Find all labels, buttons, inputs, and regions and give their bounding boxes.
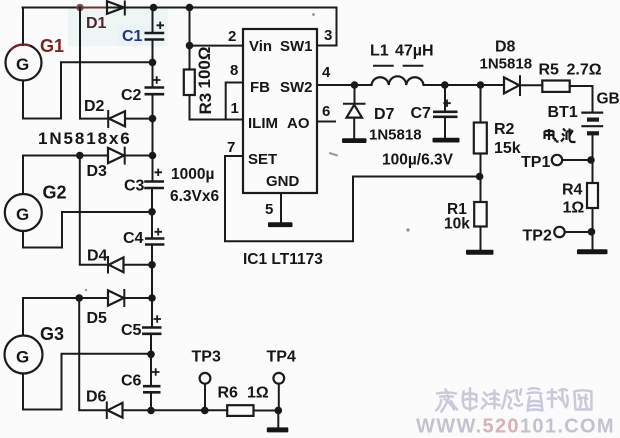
label SW1 pin name (280, 38, 313, 55)
wire pin3 SW1 stub (317, 45, 337, 47)
label 100ohm rotated (195, 47, 214, 89)
label R6 (218, 385, 239, 402)
node bus3 top (75, 294, 83, 302)
ground R1 (466, 250, 494, 255)
svg-text:WWW.520101.COM: WWW.520101.COM (416, 416, 615, 438)
diode D5 (108, 290, 124, 306)
wire R6 to TP4 node (254, 410, 279, 412)
svg-text:D5: D5 (87, 310, 108, 327)
generator G2 (5, 194, 42, 231)
svg-text:6.3Vx6: 6.3Vx6 (170, 188, 220, 205)
scan tint patch near D1/C1 (68, 8, 168, 46)
svg-text:C1: C1 (122, 28, 143, 45)
node D5 column (148, 294, 156, 302)
wire D3 cathode to column (125, 155, 151, 157)
svg-text:D8: D8 (495, 39, 516, 56)
wire top rail (23, 8, 337, 46)
label TP2 (523, 228, 552, 245)
wire G1 top lead (22, 8, 24, 46)
node C1-C2 midpoint (149, 59, 157, 67)
wire battery column to R4 (592, 160, 594, 183)
label G2 (43, 183, 67, 203)
svg-text:G: G (16, 55, 29, 74)
wire Vin rail (189, 8, 191, 70)
watermark url (416, 416, 615, 438)
pin number 8 (230, 62, 238, 79)
label Vin pin name (249, 38, 272, 55)
diode D8 (504, 76, 520, 95)
svg-text:AO: AO (287, 115, 310, 132)
wire D5 row left (23, 297, 108, 299)
label 1N5818x6 (38, 129, 132, 148)
node C1 top (150, 4, 158, 12)
label FB pin name (250, 79, 270, 96)
svg-text:G1: G1 (40, 36, 64, 56)
label D5 (87, 310, 108, 327)
label C7 (411, 105, 432, 122)
wire G3 top lead (22, 298, 24, 335)
svg-text:GND: GND (266, 173, 300, 190)
svg-text:1N5818x6: 1N5818x6 (38, 129, 132, 148)
battery BT1 (581, 113, 603, 160)
node C5-C6 midpoint (147, 351, 155, 359)
svg-text:D4: D4 (87, 248, 108, 265)
wire G2 top lead (22, 156, 24, 194)
svg-text:L1: L1 (370, 43, 389, 60)
scan speck (406, 228, 409, 231)
label C2 (121, 87, 142, 104)
svg-text:2.7Ω: 2.7Ω (567, 62, 602, 79)
label 47uH (395, 43, 434, 60)
wire R1 to ground (480, 227, 482, 250)
pin number 6 (322, 103, 330, 120)
node feedback junction (476, 173, 484, 181)
node junction top-left (76, 4, 84, 12)
pin number 7 (227, 139, 235, 156)
bottom rail D6 to R6 (123, 409, 228, 411)
test point TP1 (552, 155, 593, 165)
svg-text:TP3: TP3 (192, 349, 221, 366)
label SET pin name (248, 151, 277, 168)
pin number 2 (228, 28, 236, 45)
diode D4 (108, 257, 124, 273)
inductor L1 (372, 76, 424, 85)
wire D8 to R5 (520, 84, 542, 86)
wire G3 bottom to C5-C6 midpoint (23, 354, 148, 410)
label 15k (494, 140, 521, 157)
wire rail red tint segment (76, 7, 106, 9)
svg-text:GB: GB (597, 91, 620, 108)
node R2 D8 branch (477, 81, 485, 89)
svg-text:D6: D6 (86, 389, 107, 406)
resistor R3 (184, 70, 195, 96)
wire D2 anode to column (125, 118, 151, 120)
svg-text:R6: R6 (218, 385, 239, 402)
node D3 column (149, 152, 157, 160)
label 10k (444, 216, 470, 233)
label 100u/6.3V (382, 152, 454, 169)
svg-text:FB: FB (250, 79, 270, 96)
scan speck (85, 289, 88, 292)
label GND pin name (266, 173, 300, 190)
svg-text:IC1 LT1173: IC1 LT1173 (243, 251, 323, 268)
svg-text:D2: D2 (84, 98, 105, 115)
svg-text:SW1: SW1 (280, 38, 313, 55)
capacitor C5 (142, 315, 162, 334)
wire SW2 row (317, 84, 372, 86)
svg-text:15k: 15k (494, 140, 521, 157)
svg-text:Vin: Vin (249, 38, 272, 55)
svg-text:1N5818: 1N5818 (480, 56, 533, 73)
svg-text:ILIM: ILIM (248, 115, 278, 132)
label R2 (494, 121, 515, 138)
wire SET drop and feedback run (225, 156, 479, 241)
resistor R2 (474, 123, 487, 154)
label 1000u (171, 166, 214, 183)
label D8 1N5818 (480, 56, 533, 73)
label D8 (495, 39, 516, 56)
label C1 (122, 28, 143, 45)
resistor R6 (227, 405, 253, 416)
label D3 (87, 163, 108, 180)
label C5 (121, 322, 142, 339)
label G3 (40, 324, 64, 344)
scan speck (312, 13, 315, 16)
svg-text:5: 5 (265, 201, 273, 218)
wire R3 bottom to ILIM (190, 95, 244, 120)
svg-text:4: 4 (322, 64, 331, 81)
label D1 (86, 15, 107, 32)
svg-text:2: 2 (228, 28, 236, 45)
svg-text:100µ/6.3V: 100µ/6.3V (382, 152, 454, 169)
svg-text:D1: D1 (86, 15, 107, 32)
wire bus1 (80, 8, 108, 119)
wire D3 row left (23, 155, 108, 157)
wire pin2 stub (190, 45, 244, 47)
svg-text:C6: C6 (121, 373, 142, 390)
label TP1 (521, 154, 550, 171)
capacitor column wire segments (151, 8, 153, 411)
wire G2 bottom to C3-C4 midpoint (23, 212, 149, 248)
label ILIM pin name (248, 115, 278, 132)
label D7 1N5818 (369, 127, 422, 144)
ground C7 (433, 138, 460, 143)
svg-text:1000µ: 1000µ (171, 166, 214, 183)
svg-text:D7: D7 (374, 106, 395, 123)
label IC1 LT1173 (243, 251, 323, 268)
svg-text:6: 6 (322, 103, 330, 120)
svg-text:C3: C3 (124, 178, 145, 195)
label C4 (123, 230, 144, 247)
node TP4 bottom (275, 407, 283, 415)
watermark chinese characters (436, 388, 591, 411)
label L1 underline dashes (373, 65, 423, 67)
diode D2 (108, 111, 125, 127)
resistor R4 (587, 183, 598, 208)
svg-text:100Ω: 100Ω (195, 47, 214, 89)
wire bus3 (79, 298, 106, 410)
label 6.3Vx6 (170, 188, 220, 205)
label G1 (40, 36, 64, 56)
node C7 top (441, 81, 449, 89)
scan speck (329, 152, 338, 157)
label BT1 (548, 104, 578, 121)
test point TP4 (273, 373, 284, 409)
diode D6 (107, 402, 123, 418)
label 2.7ohm (567, 62, 602, 79)
svg-text:47µH: 47µH (395, 43, 434, 60)
node bus2 top (76, 152, 84, 160)
svg-text:G3: G3 (40, 324, 64, 344)
wire D4 anode to column (124, 264, 151, 266)
svg-text:TP4: TP4 (267, 349, 296, 366)
label D6 (86, 389, 107, 406)
label R3 rotated (196, 93, 215, 115)
node TP3 bottom (201, 407, 209, 415)
label AO pin name (287, 115, 310, 132)
ground battery column (577, 249, 608, 254)
test point TP2 (554, 227, 591, 237)
label C6 (121, 373, 142, 390)
svg-text:D3: D3 (87, 163, 108, 180)
node D7 top (351, 81, 359, 89)
capacitor C4 (145, 228, 164, 244)
pin number 3 (324, 27, 332, 44)
capacitor C3 (144, 169, 164, 188)
label R6 1ohm (247, 385, 269, 402)
label R4 (562, 182, 583, 199)
label TP4 (267, 349, 296, 366)
svg-text:1: 1 (231, 100, 239, 117)
pin number 1 (231, 100, 239, 117)
svg-text:SW2: SW2 (280, 79, 313, 96)
svg-text:10k: 10k (444, 216, 470, 233)
diode D3 (108, 148, 125, 164)
svg-text:R4: R4 (562, 182, 583, 199)
ground D7 (342, 138, 367, 143)
wire pin6 AO stub (317, 121, 335, 123)
svg-text:3: 3 (324, 27, 332, 44)
capacitor C2 (145, 76, 165, 94)
wire D5 cathode to column (124, 297, 150, 299)
label GB (597, 91, 620, 108)
wire R5 to battery (570, 86, 593, 112)
svg-text:8: 8 (230, 62, 238, 79)
node C2 bottom D2 (149, 115, 157, 123)
diode D7 (344, 85, 365, 138)
svg-text:G2: G2 (43, 183, 67, 203)
node C6 bottom D6 (147, 407, 155, 415)
svg-text:C5: C5 (121, 322, 142, 339)
label D2 (84, 98, 105, 115)
svg-text:TP2: TP2 (523, 228, 552, 245)
node C4 bottom D4 (148, 261, 156, 269)
pin number 5 (265, 201, 273, 218)
resistor R1 (474, 202, 487, 227)
wire L1 to D8 row (424, 84, 504, 86)
svg-text:BT1: BT1 (548, 104, 578, 121)
svg-text:G: G (16, 348, 29, 367)
wire TP4 node to ground (277, 411, 279, 428)
svg-text:1N5818: 1N5818 (369, 127, 422, 144)
svg-text:7: 7 (227, 139, 235, 156)
svg-text:TP1: TP1 (521, 154, 550, 171)
svg-text:R5: R5 (539, 62, 560, 79)
node TP2 column (588, 228, 596, 236)
wire pin5 GND lead (280, 193, 282, 223)
svg-text:1Ω: 1Ω (247, 385, 269, 402)
pin number 4 (322, 64, 331, 81)
label TP3 (192, 349, 221, 366)
resistor R5 (542, 81, 569, 92)
label D4 (87, 248, 108, 265)
node C3-C4 midpoint (148, 208, 156, 216)
node Vin stub (186, 42, 194, 50)
capacitor C1 (145, 22, 165, 40)
svg-text:1Ω: 1Ω (563, 200, 585, 217)
label SW2 pin name (280, 79, 313, 96)
label R5 (539, 62, 560, 79)
wire R2 to R1 (480, 154, 482, 203)
label C3 (124, 178, 145, 195)
diode D1 (107, 1, 125, 14)
capacitor C7 (433, 85, 458, 138)
svg-text:G: G (16, 205, 29, 224)
svg-text:SET: SET (248, 151, 277, 168)
wire FB drop (226, 83, 243, 120)
test point TP3 (200, 373, 211, 409)
wire R2 branch top (480, 85, 482, 123)
wire R4 to ground (592, 208, 594, 249)
svg-text:R2: R2 (494, 121, 515, 138)
ground IC pin5 (268, 222, 293, 227)
label R4 1ohm (563, 200, 585, 217)
label L1 (370, 43, 389, 60)
label battery chinese (545, 129, 576, 143)
svg-text:C7: C7 (411, 105, 432, 122)
wire bus2 (80, 156, 108, 265)
op-amp IC U1 box (243, 29, 317, 193)
svg-text:C4: C4 (123, 230, 144, 247)
generator G3 (5, 336, 43, 374)
node TP1 battery column (587, 156, 595, 164)
node Vin rail top (186, 4, 194, 12)
wire G1 bottom to C1-C2 midpoint (23, 62, 150, 118)
ground bottom rail (267, 427, 289, 432)
label D7 (374, 106, 395, 123)
svg-text:C2: C2 (121, 87, 142, 104)
capacitor C6 (143, 368, 161, 392)
svg-text:R3: R3 (196, 93, 215, 115)
label R1 (447, 201, 467, 218)
generator G1 (6, 44, 42, 80)
